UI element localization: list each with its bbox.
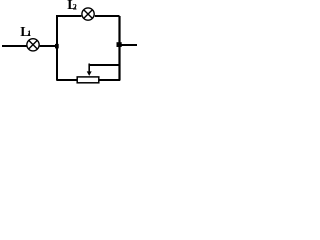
svg-text:1: 1 xyxy=(27,28,31,38)
svg-text:2: 2 xyxy=(73,2,77,12)
